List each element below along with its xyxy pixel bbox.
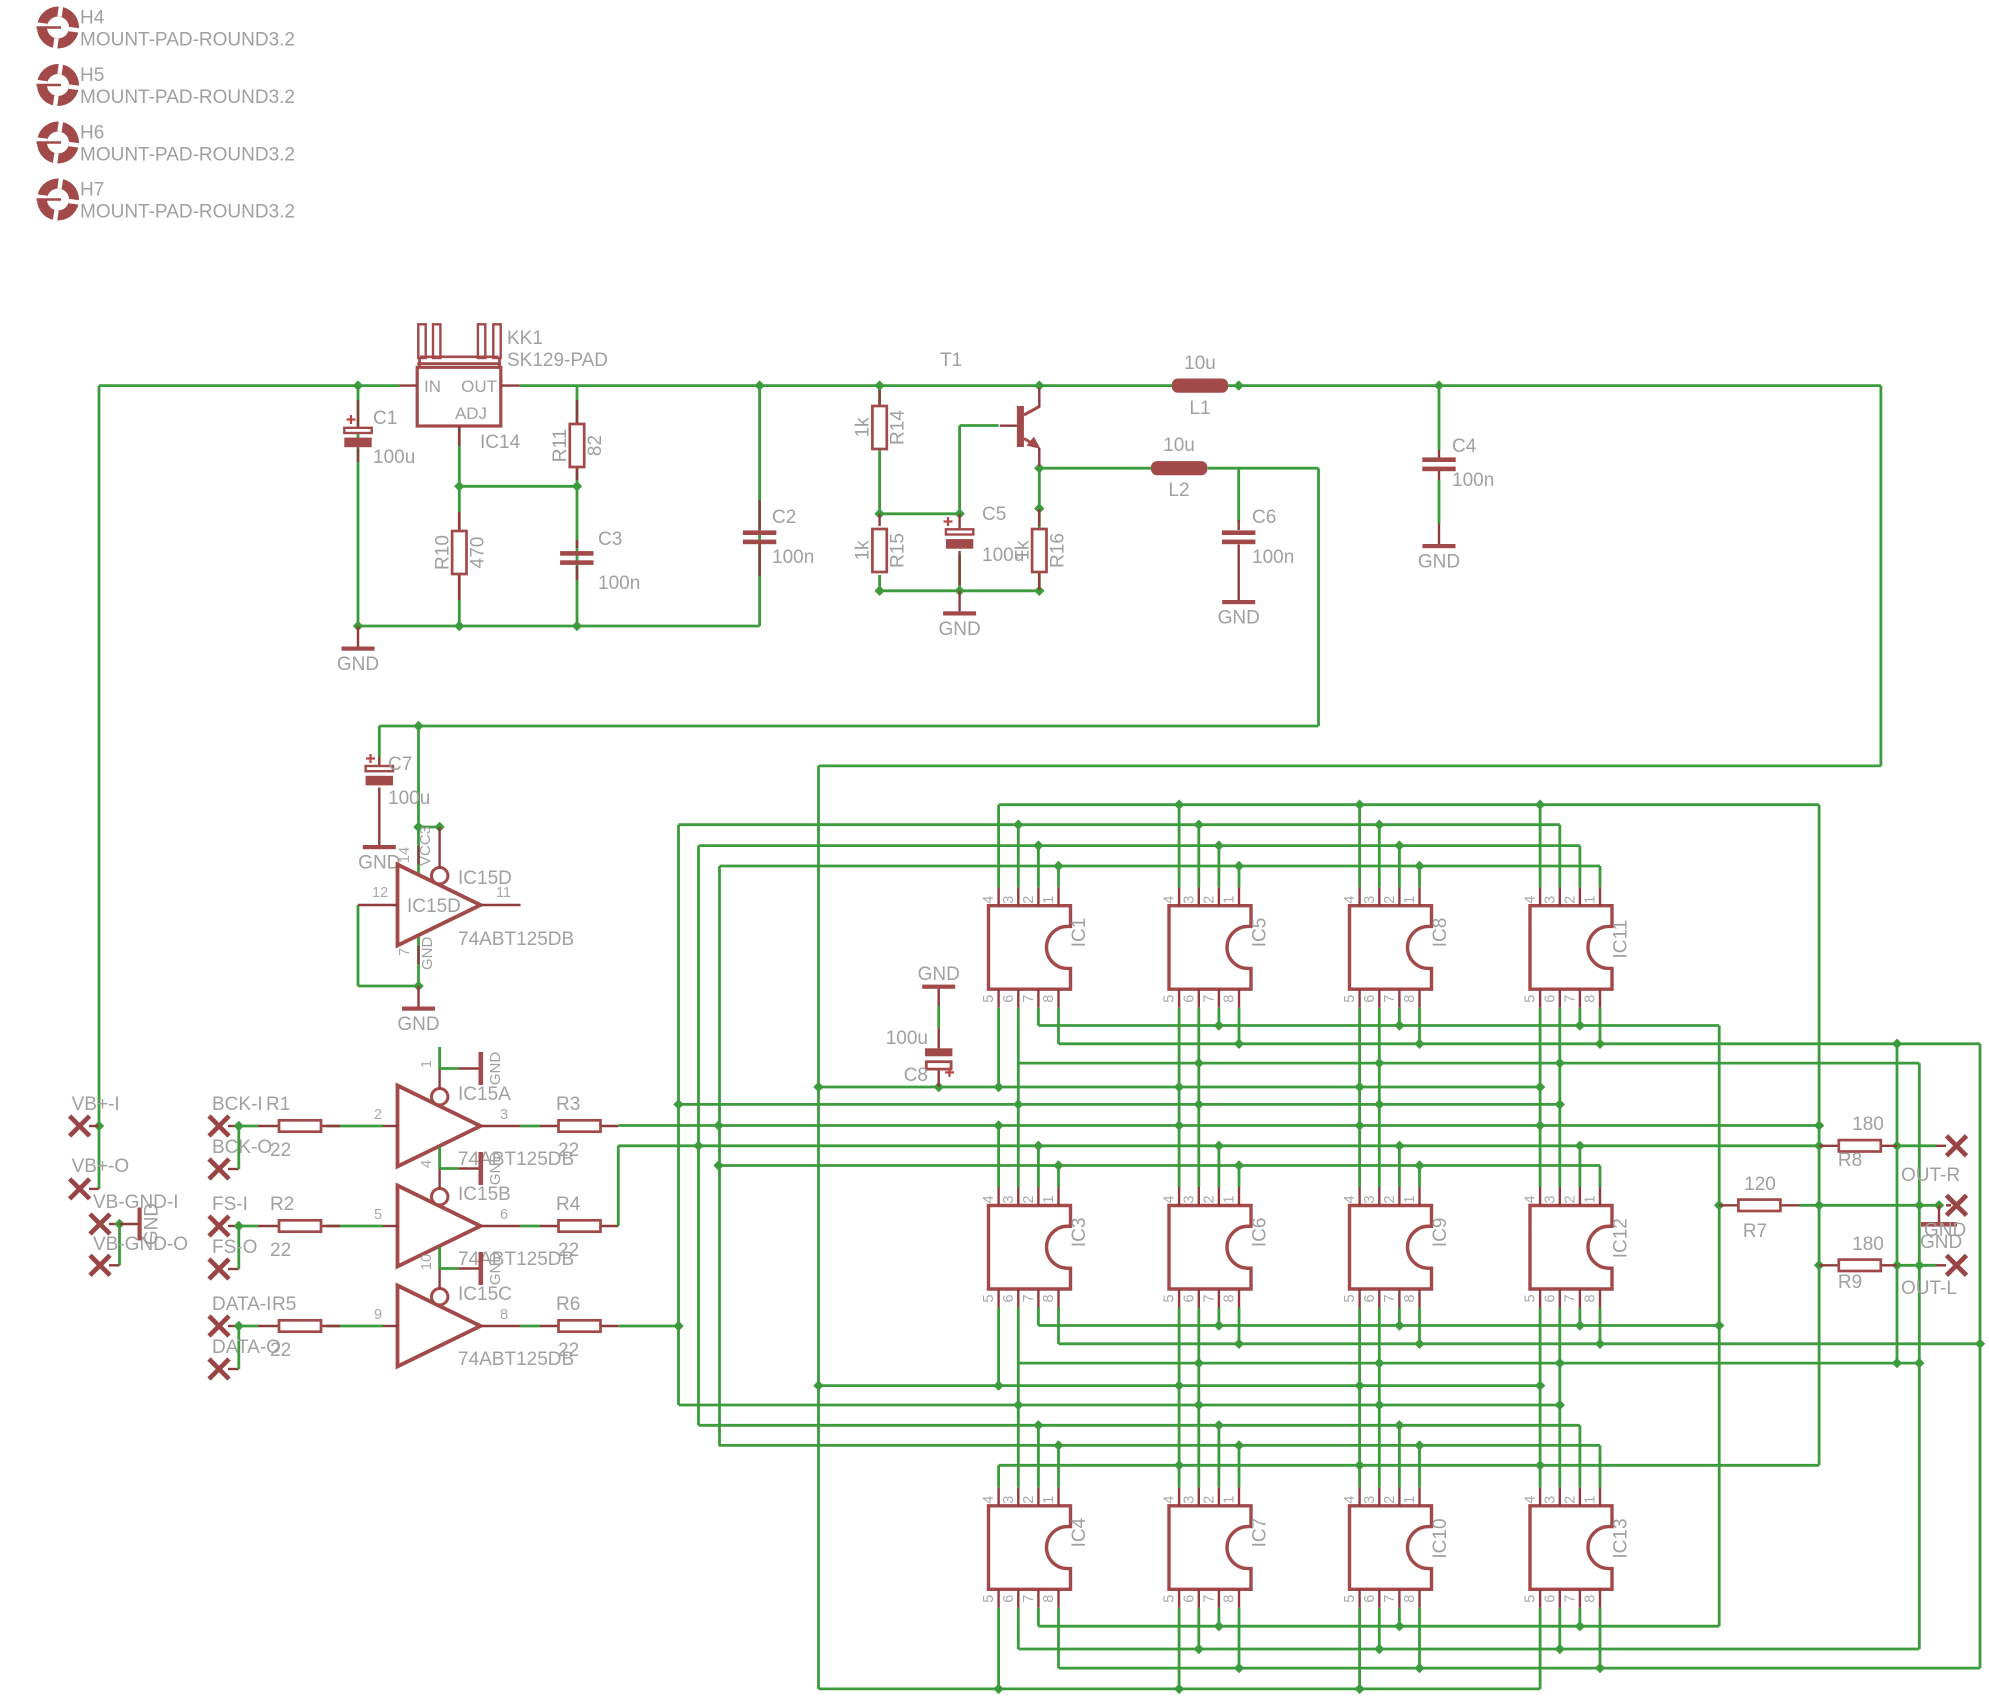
wire net DATA row1 rail [679,825,1560,888]
svg-text:4: 4 [981,896,997,904]
svg-text:5: 5 [1523,1595,1539,1603]
junction R9 vertical [1914,1200,1924,1368]
junction pin7 row3 [1214,1621,1585,1631]
svg-text:GND: GND [938,619,980,640]
ground right of VB-GND [120,1223,138,1225]
svg-text:4: 4 [1162,1496,1178,1504]
svg-text:22: 22 [270,1240,291,1261]
resistor R2 [258,1225,279,1227]
svg-text:5: 5 [981,995,997,1003]
wire net VCC row3 [819,1608,1541,1689]
DAC chip IC6 [1162,1187,1271,1308]
svg-text:14: 14 [397,847,413,863]
wire net VB-GND [118,1224,121,1265]
svg-text:1: 1 [1583,896,1599,904]
svg-text:7: 7 [1382,1294,1398,1302]
svg-text:GND: GND [1920,1232,1962,1253]
pad OUT-R [1947,1136,1967,1156]
ground below C4 [1438,524,1440,545]
svg-text:7: 7 [1382,1595,1398,1603]
svg-text:7: 7 [1562,1294,1578,1302]
junction pin7 row2 [1214,1320,1725,1330]
DAC chip IC7 [1162,1487,1271,1608]
svg-text:7: 7 [397,948,413,956]
junction DATA row2 feed [673,1099,1565,1109]
svg-text:5: 5 [1162,1294,1178,1302]
resistor R11 [576,400,578,424]
svg-text:22: 22 [270,1340,291,1361]
svg-text:3: 3 [1181,1195,1197,1203]
svg-text:IC15C: IC15C [458,1284,512,1305]
ground above C8 [922,985,955,989]
svg-text:L2: L2 [1168,480,1189,501]
svg-text:5: 5 [1342,1294,1358,1302]
svg-text:4: 4 [1162,896,1178,904]
capacitor C6 [1237,520,1239,530]
DAC chip IC10 [1342,1487,1451,1608]
svg-text:IC13: IC13 [1611,1518,1632,1558]
svg-text:R11: R11 [550,429,571,462]
svg-text:8: 8 [1402,1294,1418,1302]
junction BCK row2 [713,1120,1824,1130]
mount pad H5 [35,62,81,108]
svg-text:1k: 1k [853,540,874,561]
wire net BCK row3 rail [719,1445,1600,1487]
svg-text:3: 3 [1181,896,1197,904]
pad OUT-L [1947,1255,1967,1275]
wire net pin6 row1 [1018,1062,1919,1065]
svg-text:1: 1 [1041,1195,1057,1203]
svg-text:5: 5 [981,1294,997,1302]
pad GND right [1947,1195,1967,1215]
svg-text:IC6: IC6 [1250,1218,1271,1248]
DAC chip IC9 [1342,1187,1451,1308]
svg-text:1: 1 [1402,896,1418,904]
resistor R16 [1038,509,1040,526]
junction BCK row3 [1053,1440,1424,1450]
svg-text:R2: R2 [270,1194,294,1215]
svg-text:1: 1 [1222,1496,1238,1504]
svg-text:T1: T1 [940,350,962,371]
junction R8 vertical [1892,1141,1902,1271]
svg-text:6: 6 [1362,1294,1378,1302]
svg-text:5: 5 [1162,995,1178,1003]
svg-text:7: 7 [1201,1595,1217,1603]
svg-text:GND: GND [1218,608,1260,629]
svg-text:7: 7 [1201,995,1217,1003]
wire net R7 row [1799,1204,1936,1207]
svg-text:3: 3 [500,1107,508,1123]
capacitor C4 [1438,386,1441,450]
resistor R7 [1719,1204,1738,1206]
junction GND regulator [353,481,582,631]
svg-text:180: 180 [1852,1234,1884,1255]
junction R7 gnd stub [1934,1200,1944,1210]
svg-text:9: 9 [374,1307,382,1323]
pad VB-GND-O [90,1255,110,1275]
junction FS in [234,1221,244,1231]
svg-text:100n: 100n [1452,470,1494,491]
junction col p4 r2-r3 [1535,1380,1545,1390]
wire net VOUT rail [520,386,1881,1689]
junction col p4 r1-r2 [1535,1082,1545,1092]
svg-text:IC15D: IC15D [458,868,512,889]
svg-text:MOUNT-PAD-ROUND3.2: MOUNT-PAD-ROUND3.2 [80,202,295,223]
wire net pin4 row3 [999,1465,1820,1487]
junction pin8 row3 [1234,1663,1605,1673]
buffer IC15B [398,1186,481,1267]
svg-text:GND: GND [918,964,960,985]
svg-text:2: 2 [1562,1195,1578,1203]
svg-text:3: 3 [1001,1496,1017,1504]
svg-text:4: 4 [1342,896,1358,904]
svg-text:7: 7 [1201,1294,1217,1302]
resistor R4 [540,1225,559,1227]
junction pin4 vertical right [1814,1200,1824,1270]
junction R7 vertical [1714,1200,1724,1210]
junction DATA in [234,1321,244,1331]
svg-text:4: 4 [1342,1496,1358,1504]
wire net OUT-R row [1897,1144,1936,1147]
svg-text:8: 8 [1402,1595,1418,1603]
svg-text:OUT-L: OUT-L [1901,1278,1957,1299]
svg-text:GND: GND [358,853,400,874]
svg-text:100u: 100u [388,788,430,809]
svg-text:6: 6 [1362,1595,1378,1603]
svg-text:FS-I: FS-I [212,1194,248,1215]
junction pin6 row2 [1194,1358,1903,1368]
pad BCK-I / BCK-O [209,1116,229,1136]
wire net FS row1 rail [699,846,1580,888]
svg-text:470: 470 [467,537,488,569]
svg-text:5: 5 [1523,1294,1539,1302]
svg-text:10u: 10u [1184,353,1216,374]
svg-text:100u: 100u [982,545,1024,566]
svg-text:R3: R3 [556,1094,580,1115]
ground below C1 [357,626,359,647]
svg-text:BCK-O: BCK-O [212,1137,272,1158]
svg-text:R15: R15 [888,533,909,568]
svg-text:GND: GND [1418,552,1460,573]
pad FS-I / FS-O [209,1216,229,1236]
svg-text:2: 2 [1201,1195,1217,1203]
svg-text:6: 6 [1001,1294,1017,1302]
svg-text:KK1: KK1 [507,328,543,349]
svg-text:H5: H5 [80,65,104,86]
svg-text:8: 8 [500,1307,508,1323]
capacitor C5 [958,514,960,530]
svg-text:22: 22 [558,1240,579,1261]
svg-text:VB+-I: VB+-I [72,1094,120,1115]
junction gate D gnd [413,981,423,991]
svg-text:2: 2 [1382,1496,1398,1504]
wire col verticals r1-r2 [1018,1008,1560,1187]
svg-text:6: 6 [1001,995,1017,1003]
svg-text:3: 3 [1001,896,1017,904]
svg-text:10u: 10u [1163,435,1195,456]
svg-text:IC15D: IC15D [407,896,461,917]
resistor R3 [540,1125,559,1127]
svg-text:1: 1 [1402,1496,1418,1504]
svg-text:22: 22 [558,1140,579,1161]
svg-text:IC15B: IC15B [458,1184,511,1205]
svg-text:R8: R8 [1838,1150,1862,1171]
pad DATA-I / DATA-O [209,1316,229,1336]
wire net FS vertical [697,846,700,1426]
wire net pin4 row1 [999,805,1820,888]
svg-text:2: 2 [1562,1496,1578,1504]
svg-text:BCK-I: BCK-I [212,1094,263,1115]
junction DATA row3 feed [1013,1400,1565,1410]
DAC chip IC8 [1342,887,1451,1008]
junction VCC3 [413,721,445,832]
svg-text:74ABT125DB: 74ABT125DB [458,1349,574,1370]
svg-text:H4: H4 [80,8,105,29]
svg-text:5: 5 [374,1207,382,1223]
svg-text:L1: L1 [1189,398,1210,419]
wire net VCC row1 [819,1008,1541,1087]
svg-text:6: 6 [1181,1595,1197,1603]
junction VB-GND [114,1219,124,1229]
svg-text:IN: IN [424,377,441,396]
svg-text:4: 4 [1523,1496,1539,1504]
svg-text:DATA-I: DATA-I [212,1294,271,1315]
svg-text:5: 5 [1162,1595,1178,1603]
svg-text:R6: R6 [556,1294,580,1315]
svg-text:IC12: IC12 [1611,1218,1632,1258]
mount pad H6 [35,119,81,165]
svg-text:2: 2 [1562,896,1578,904]
svg-text:IC11: IC11 [1611,920,1632,959]
svg-text:6: 6 [1181,1294,1197,1302]
svg-text:1: 1 [1583,1195,1599,1203]
svg-text:8: 8 [1222,995,1238,1003]
junction base divider [874,463,1044,596]
svg-text:100u: 100u [886,1028,928,1049]
wire net R8 vertical [1896,1044,1899,1363]
svg-text:GND: GND [487,1052,504,1086]
ground below C5 [958,591,960,612]
svg-text:100u: 100u [373,447,415,468]
svg-text:FS-O: FS-O [212,1237,257,1258]
wire net R9 vertical [1918,1063,1921,1649]
wire net pin7 row1 [1038,1008,1719,1026]
junction FS row2 [693,1141,1824,1151]
svg-text:2: 2 [1021,1195,1037,1203]
svg-text:H6: H6 [80,123,104,144]
svg-text:8: 8 [1583,1595,1599,1603]
svg-text:R1: R1 [266,1094,290,1115]
ground below C6 [1237,580,1239,601]
svg-text:8: 8 [1402,995,1418,1003]
wire net pin6 row2 [1018,1362,1919,1365]
wire net DATA row2 feed [679,1103,1560,1106]
junction DATA vertical [673,1321,683,1331]
svg-text:C2: C2 [772,507,796,528]
svg-text:R14: R14 [888,410,909,445]
svg-text:1: 1 [1583,1496,1599,1504]
wire net pin7 row3 [1038,1608,1719,1626]
svg-text:C5: C5 [982,504,1006,525]
svg-text:8: 8 [1222,1294,1238,1302]
junction pin8 row1 [1234,1039,1902,1049]
svg-text:R7: R7 [1743,1221,1767,1242]
junction BCK in [234,1121,244,1131]
mount pad H4 [35,4,81,50]
wire col verticals p4 r1-r2 [1179,1087,1540,1126]
svg-text:1: 1 [1041,1496,1057,1504]
svg-text:4: 4 [1523,1195,1539,1203]
svg-text:2: 2 [1021,1496,1037,1504]
svg-text:2: 2 [1382,896,1398,904]
svg-text:8: 8 [1222,1595,1238,1603]
DAC chip IC12 [1523,1187,1632,1308]
capacitor C7 [378,757,380,766]
wire R4 in [520,1225,540,1228]
svg-text:120: 120 [1744,1174,1776,1195]
svg-text:C4: C4 [1452,436,1477,457]
svg-text:74ABT125DB: 74ABT125DB [458,929,574,950]
svg-text:4: 4 [1342,1195,1358,1203]
svg-text:3: 3 [1362,896,1378,904]
svg-text:100n: 100n [772,547,814,568]
svg-text:6: 6 [1542,1595,1558,1603]
svg-text:5: 5 [1342,1595,1358,1603]
wire net pin6 row3 [1018,1608,1919,1649]
wire net pin8 row1 [1059,1008,1981,1044]
svg-text:6: 6 [1001,1595,1017,1603]
svg-text:GND: GND [487,1152,504,1186]
DAC chip IC5 [1162,887,1271,1008]
svg-text:R10: R10 [432,535,453,570]
svg-text:3: 3 [1362,1195,1378,1203]
wire R3 in [520,1125,540,1128]
wire col verticals p4 r2-r3 [1179,1386,1540,1466]
inductor L2 [1151,461,1207,475]
wire net pin4 vertical right [1818,805,1821,1466]
wire net pin8 row2 [1059,1308,1981,1344]
svg-text:MOUNT-PAD-ROUND3.2: MOUNT-PAD-ROUND3.2 [80,30,295,51]
svg-text:3: 3 [1181,1496,1197,1504]
svg-text:VB+-O: VB+-O [72,1156,130,1177]
junction FS row3 [1033,1420,1404,1430]
svg-text:OUT-R: OUT-R [1901,1165,1960,1186]
svg-text:180: 180 [1852,1114,1884,1135]
svg-text:8: 8 [1041,1294,1057,1302]
svg-text:5: 5 [1523,995,1539,1003]
regulator IC14 [417,367,501,426]
inductor L1 [1172,379,1228,393]
junction pin8 row2 [1234,1339,1985,1349]
DAC chip IC13 [1523,1487,1632,1608]
svg-text:1: 1 [1222,1195,1238,1203]
svg-text:4: 4 [419,1160,435,1168]
svg-text:C8: C8 [904,1065,928,1086]
capacitor C3 [576,540,578,548]
svg-text:100n: 100n [1252,547,1294,568]
DAC chip IC1 [981,887,1090,1008]
svg-text:1: 1 [419,1060,435,1068]
svg-text:GND: GND [337,654,379,675]
svg-text:C6: C6 [1252,507,1276,528]
svg-text:10: 10 [419,1254,435,1270]
svg-text:6: 6 [1542,995,1558,1003]
svg-text:2: 2 [1201,1496,1217,1504]
resistor R1 [258,1125,279,1127]
svg-text:82: 82 [585,435,606,456]
heatsink KK1 [417,324,501,366]
wire net L2 [1039,468,1318,726]
svg-text:IC7: IC7 [1250,1518,1271,1548]
svg-text:VB-GND-I: VB-GND-I [93,1192,179,1213]
junction pin6 row3 [1194,1644,1565,1654]
svg-text:GND: GND [397,1014,439,1035]
svg-text:8: 8 [1041,995,1057,1003]
wire net BCK row1 rail [720,866,1601,887]
pad VB+-I [70,1116,90,1136]
svg-text:IC1: IC1 [1069,918,1090,948]
resistor R6 [540,1325,559,1327]
wire net DATA vertical [618,825,678,1405]
svg-text:GND: GND [142,1203,163,1245]
wire net FS row3 rail [699,1425,1580,1487]
junction VCC row3 [993,1684,1364,1694]
resistor R8 [1819,1145,1839,1147]
svg-text:8: 8 [1041,1595,1057,1603]
resistor R5 [258,1325,279,1327]
junction FS row1 [1033,840,1404,850]
svg-text:6: 6 [500,1207,508,1223]
junction VIN at C1 [94,380,363,1131]
junction DATA row1 [1013,820,1384,830]
junction VCC row2 [813,1380,1365,1390]
resistor R9 [1819,1264,1839,1266]
resistor R15 [878,514,880,526]
svg-text:3: 3 [1542,1496,1558,1504]
capacitor C1 [357,400,359,428]
svg-text:2: 2 [1201,896,1217,904]
junction VOUT rail [754,380,1444,390]
svg-text:1: 1 [1402,1195,1418,1203]
svg-text:6: 6 [1362,995,1378,1003]
svg-text:VCC3: VCC3 [417,826,434,866]
svg-text:IC4: IC4 [1069,1517,1090,1547]
svg-text:MOUNT-PAD-ROUND3.2: MOUNT-PAD-ROUND3.2 [80,87,295,108]
svg-text:2: 2 [374,1107,382,1123]
svg-text:1: 1 [1041,896,1057,904]
svg-text:4: 4 [1523,896,1539,904]
svg-text:100n: 100n [598,573,640,594]
wire net FS row2 rail [618,1146,1819,1226]
svg-text:R4: R4 [556,1194,581,1215]
wire net GND regulator rail [358,386,760,626]
svg-text:3: 3 [1362,1496,1378,1504]
svg-text:1k: 1k [853,417,874,438]
svg-text:3: 3 [1542,1195,1558,1203]
wire net VIN [99,386,400,1189]
wire R6 in [520,1325,540,1328]
svg-text:R9: R9 [1838,1272,1862,1293]
svg-text:IC9: IC9 [1430,1218,1451,1248]
svg-text:ADJ: ADJ [455,404,487,423]
svg-text:IC3: IC3 [1069,1218,1090,1248]
mount pad H7 [35,176,81,222]
svg-text:4: 4 [981,1496,997,1504]
junction pin4 row1 [1174,800,1545,810]
wire net BCK2 row2 rail [719,1166,1600,1188]
svg-text:6: 6 [1542,1294,1558,1302]
svg-text:5: 5 [981,1595,997,1603]
